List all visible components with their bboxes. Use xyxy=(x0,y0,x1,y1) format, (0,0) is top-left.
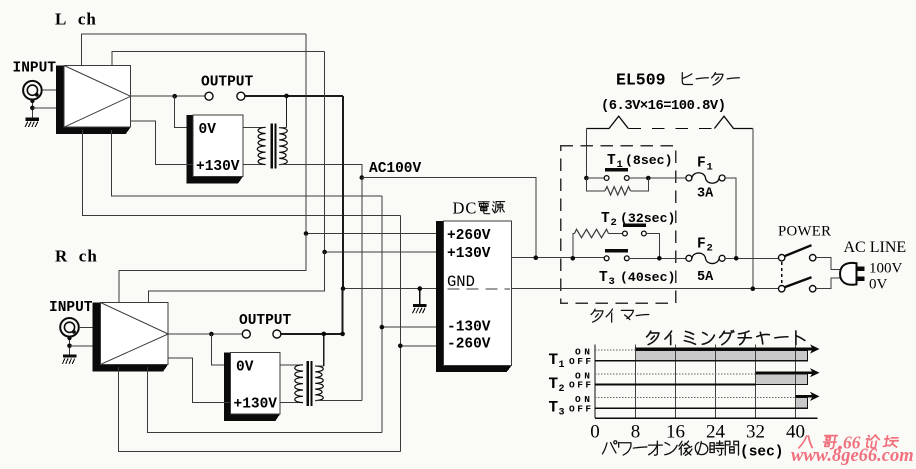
wire AC100V bus down to R transformer xyxy=(361,178,363,401)
wire R amp output xyxy=(168,333,242,335)
RCA input jack J1 (L) xyxy=(23,81,42,100)
wire GND bus (thick) from L OUT- xyxy=(342,96,344,289)
node L output junction xyxy=(172,94,177,99)
svg-text:1: 1 xyxy=(707,162,713,174)
wire L amp -260V drop xyxy=(82,130,400,215)
svg-text:+130V: +130V xyxy=(447,246,491,262)
chart axis vertical xyxy=(594,345,596,419)
chart arrow T3 xyxy=(796,395,813,398)
wire R amp -260V drop xyxy=(118,367,400,452)
switch S1a xyxy=(779,255,785,261)
chart band T3 xyxy=(796,398,808,409)
wire R secondary top to OUT- xyxy=(323,334,325,366)
relay timer T3 (40sec) contact on main line xyxy=(605,249,628,252)
wire L 0V drop to box xyxy=(175,96,193,127)
node AC100V junction xyxy=(360,175,365,180)
node R output junction xyxy=(209,332,214,337)
svg-text:L ch: L ch xyxy=(55,10,97,29)
svg-text:0V: 0V xyxy=(236,360,254,376)
chart row T1 signal xyxy=(595,349,636,351)
svg-text:0V: 0V xyxy=(869,277,888,293)
svg-text:INPUT: INPUT xyxy=(49,300,93,316)
node GND at ground symbol xyxy=(418,286,423,291)
switch gang link dashed xyxy=(781,262,783,285)
wire R amp -130V drop xyxy=(148,367,382,433)
terminal L OUT- xyxy=(237,92,245,100)
svg-text:2: 2 xyxy=(707,243,713,255)
chart bottom axis xyxy=(595,417,818,419)
node L input ground stem xyxy=(31,100,33,118)
wire L secondary top to OUT- xyxy=(286,96,288,128)
svg-text:OUTPUT: OUTPUT xyxy=(201,75,254,91)
chart arrow T1 xyxy=(636,348,813,351)
svg-text:T: T xyxy=(599,270,608,286)
svg-text:8: 8 xyxy=(631,422,641,443)
svg-text:24: 24 xyxy=(706,422,726,443)
wire R input gnd to amp xyxy=(70,345,101,347)
wire -260V row to DC box xyxy=(400,345,436,347)
svg-text:0V: 0V xyxy=(199,122,217,138)
wire -260V vertical xyxy=(399,215,401,451)
wire +130V bus vertical xyxy=(324,52,326,252)
svg-text:OFF: OFF xyxy=(569,380,594,391)
label timer katakana xyxy=(591,309,603,322)
wire L amp output xyxy=(131,95,205,97)
svg-text:+130V: +130V xyxy=(234,397,278,413)
wire R secondary bottom = AC100V xyxy=(315,400,362,402)
wire +260V feed to R amp xyxy=(119,234,306,303)
svg-text:1: 1 xyxy=(559,360,565,371)
wire L amp to +130V xyxy=(131,121,193,164)
svg-text:AC100V: AC100V xyxy=(369,161,422,177)
wire L amp -130V drop xyxy=(111,130,382,196)
resistor T1 heater element xyxy=(586,178,605,191)
wire AC100V line to heater feed corner xyxy=(362,178,536,258)
switch S1b xyxy=(779,286,785,292)
label DC power supply xyxy=(478,202,489,214)
ground input (L) xyxy=(26,118,39,121)
svg-text:OUTPUT: OUTPUT xyxy=(239,313,292,329)
svg-text:+130V: +130V xyxy=(196,159,240,175)
op-amp U3 R-ch power amp block xyxy=(92,303,168,372)
wire +130V row to DC box xyxy=(325,251,437,253)
svg-text:F: F xyxy=(697,237,706,253)
svg-text:T: T xyxy=(549,375,559,393)
wire L output return (thick) xyxy=(245,95,343,97)
svg-text:R ch: R ch xyxy=(55,247,98,266)
svg-text:AC LINE: AC LINE xyxy=(844,239,907,256)
wire DC box AC input right xyxy=(512,257,604,259)
wire GND dashed inside box xyxy=(448,288,511,290)
transformer T2 (R ch) xyxy=(280,364,303,366)
svg-text:5A: 5A xyxy=(697,270,714,285)
wire GND bus to R OUT- (thick) xyxy=(342,289,344,334)
chart band T2 xyxy=(756,374,808,385)
svg-text:T: T xyxy=(549,399,559,417)
wire -130V row to DC box xyxy=(382,326,436,328)
svg-text:OFF: OFF xyxy=(569,403,594,414)
svg-text:T: T xyxy=(607,153,616,169)
terminal R OUT+ xyxy=(242,330,250,338)
svg-text:-260V: -260V xyxy=(447,337,491,353)
node R input ground stem xyxy=(69,337,71,355)
chart arrow T2 xyxy=(756,371,813,374)
ground input (R) xyxy=(63,354,77,357)
wire +260V bus vertical xyxy=(305,34,307,234)
label time after power-on xyxy=(602,441,616,454)
svg-text:T: T xyxy=(549,351,559,369)
label heater katakana xyxy=(682,73,692,85)
wire +260V row to DC box xyxy=(306,233,436,235)
chart grid verticals xyxy=(635,345,637,419)
svg-text:3A: 3A xyxy=(697,187,714,202)
svg-text:16: 16 xyxy=(666,422,685,443)
wire R output return (thick) xyxy=(281,333,343,335)
svg-text:100V: 100V xyxy=(869,261,903,277)
svg-text:40: 40 xyxy=(786,422,805,443)
svg-text:www.8ge66.com: www.8ge66.com xyxy=(791,446,914,466)
svg-text:(sec): (sec) xyxy=(740,445,784,461)
svg-text:-130V: -130V xyxy=(447,320,491,336)
terminal R OUT- xyxy=(273,330,281,338)
wire R amp to +130V xyxy=(168,358,230,402)
AC plug body xyxy=(840,263,857,285)
wire J1(L) hot to amp xyxy=(42,89,64,91)
box timer dashed enclosure xyxy=(561,146,676,304)
svg-text:32: 32 xyxy=(746,422,765,443)
op-amp U1 L-ch power amp block xyxy=(56,66,131,135)
svg-text:2: 2 xyxy=(611,217,617,229)
svg-text:+260V: +260V xyxy=(447,228,491,244)
transformer T1 (L ch) xyxy=(243,126,266,128)
wire L input gnd to amp xyxy=(32,107,64,109)
wire GND row to DC box xyxy=(343,288,436,290)
label timing chart title xyxy=(647,331,659,344)
T2 branch with resistor and contact xyxy=(573,234,575,259)
wire J2 hot to amp xyxy=(79,326,101,328)
svg-text:EL509: EL509 xyxy=(616,71,666,90)
wire +130V feed to R amp xyxy=(148,252,324,303)
svg-text:2: 2 xyxy=(559,384,565,395)
chart row T3 signal xyxy=(595,397,796,399)
wire L amp +260V riser xyxy=(81,34,306,66)
wire heater right drop to return xyxy=(752,129,754,289)
wire R 0V drop to box xyxy=(211,334,230,365)
AC plug prongs xyxy=(856,266,864,271)
svg-text:T: T xyxy=(601,211,610,227)
terminal L OUT+ xyxy=(205,92,213,100)
svg-text:POWER: POWER xyxy=(778,224,831,240)
box L output transformer primary 0V/+130V xyxy=(187,115,243,183)
wire -130V vertical xyxy=(381,196,383,433)
svg-text:INPUT: INPUT xyxy=(13,61,57,77)
box U2 DC power supply xyxy=(436,221,511,372)
RCA input jack J2 (R) xyxy=(60,318,79,337)
box R output transformer primary 0V/+130V xyxy=(224,352,280,421)
wire L amp +130V riser xyxy=(112,52,325,66)
svg-text:3: 3 xyxy=(609,276,615,288)
ground DC supply xyxy=(413,304,427,307)
svg-text:DC: DC xyxy=(453,199,478,218)
svg-text:(6.3V×16=100.8V): (6.3V×16=100.8V) xyxy=(601,98,725,114)
wire gnd stem xyxy=(419,289,421,304)
wire F1 to switch bus xyxy=(725,178,736,258)
svg-text:3: 3 xyxy=(559,408,565,419)
wire 0V return row xyxy=(512,288,778,290)
svg-text:(8sec): (8sec) xyxy=(625,153,672,168)
watermark red text xyxy=(799,436,814,448)
svg-text:F: F xyxy=(697,156,706,172)
svg-text:OFF: OFF xyxy=(569,356,594,367)
chart row T2 signal xyxy=(595,373,756,375)
wire switch to plug xyxy=(816,258,841,270)
wire heater left drop to T1 xyxy=(585,129,587,179)
svg-text:(40sec): (40sec) xyxy=(620,270,675,285)
chart band T1 xyxy=(636,350,808,361)
wire L secondary bottom to AC100V bus xyxy=(279,165,362,178)
svg-text:0: 0 xyxy=(590,422,600,443)
heater EL509 chain with peaks, dashed middle xyxy=(586,116,628,128)
